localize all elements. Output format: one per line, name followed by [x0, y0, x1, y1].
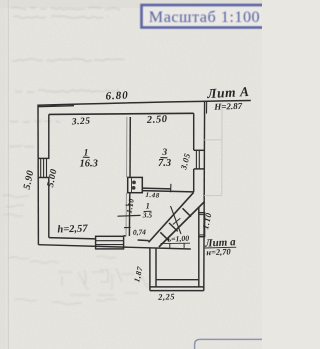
door D1 tie lines — [199, 214, 205, 216]
extension stroke below dim line at Н=2.87 — [206, 101, 208, 114]
svg-text:ь=1,00: ь=1,00 — [167, 234, 189, 244]
diagonal counter slash — [173, 218, 181, 224]
partition wall room1/corridor (dark line) — [129, 117, 131, 177]
window W1 (left wall) ties — [38, 157, 50, 159]
wall: right inner short segment below diagonal — [198, 207, 200, 213]
ghost handwriting bleed-through upper left — [9, 7, 124, 146]
window W2 hatch lines — [96, 240, 124, 242]
diagonal wall: lower line — [159, 202, 204, 247]
diagonal wall: upper line — [149, 192, 194, 242]
svg-text:3: 3 — [161, 148, 167, 158]
window W1 hatch lines — [40, 158, 42, 177]
underline for Лит а — [205, 246, 237, 249]
window W3 hatch lines — [195, 150, 197, 169]
subtle shading top — [0, 0, 262, 8]
svg-text:Масштаб 1:100: Масштаб 1:100 — [149, 8, 260, 26]
wall: outer right (full height incl annex) — [203, 102, 206, 291]
wall: right inner (door D1 to annex bottom) — [198, 237, 200, 287]
svg-text:2.50: 2.50 — [146, 114, 168, 126]
svg-text:0,74: 0,74 — [133, 227, 147, 236]
door D1 (right wall lower) box — [199, 213, 205, 237]
ghost bleed-through marks — [58, 272, 148, 295]
svg-text:1.48: 1.48 — [145, 191, 160, 200]
tick crossing partition (1.10) — [126, 204, 133, 206]
partition wall room1/corridor (light line) — [126, 117, 128, 177]
annex bottom wall outer — [150, 290, 204, 292]
svg-text:1: 1 — [146, 202, 150, 211]
svg-text:3.25: 3.25 — [71, 117, 91, 128]
room3 fraction bar — [160, 157, 167, 159]
annex left wall inner — [155, 248, 157, 287]
svg-text:h=2,57: h=2,57 — [57, 223, 88, 235]
wall: outer top stub at left corner — [38, 105, 74, 108]
wall: room3 inner right (above window) — [193, 113, 195, 150]
corridor fraction bar — [144, 210, 152, 212]
annex bottom wall inner — [150, 286, 204, 288]
wall: room3 inner right (below window) — [193, 169, 195, 192]
underline for b=1.00 — [161, 242, 190, 244]
wall: room1 inner bottom (left of window) — [49, 238, 96, 239]
left margin line — [7, 0, 9, 349]
stamp fragment bottom right — [195, 339, 262, 349]
diagonal tie 1 — [160, 232, 169, 240]
svg-text:Н=2.87: Н=2.87 — [213, 101, 243, 112]
stamp: Масштаб 1:100 — [142, 5, 280, 28]
annex left wall outer — [149, 248, 151, 290]
diagonal slash stroke — [171, 206, 182, 234]
svg-text:н=2,70: н=2,70 — [206, 246, 232, 257]
long dash left of corridor label — [118, 214, 141, 217]
annex step line — [156, 279, 199, 281]
window W2 (bottom wall) box — [96, 236, 124, 249]
wall: room1 inner bottom (window to divider) — [124, 235, 127, 237]
wall: corridor inner bottom (right of door 0.74) — [138, 239, 149, 242]
wall: outer bottom (main, continues as annex north wall line) — [38, 245, 190, 249]
room1 fraction bar — [83, 156, 90, 158]
wall: inner left (below window) — [48, 178, 50, 238]
stove — [128, 177, 143, 192]
wall: outer left — [37, 106, 39, 245]
svg-text:6.80: 6.80 — [105, 89, 129, 102]
wall: inner left (above window) — [48, 114, 50, 158]
wall: room3 south lower line — [142, 191, 193, 192]
dimension line 6.80 (top, doubles as outer top wall and underline of Лит А) — [37, 101, 251, 106]
svg-text:16.3: 16.3 — [80, 158, 98, 169]
tick on room3 south wall (door jamb) — [170, 184, 172, 193]
tick crossing partition (0.74) — [124, 226, 131, 228]
ghost marks lower left — [3, 195, 122, 304]
svg-text:2,25: 2,25 — [157, 291, 175, 302]
svg-text:7.3: 7.3 — [158, 158, 171, 169]
window W3 (right wall room3) ties — [194, 149, 204, 151]
diagonal tie 3 — [183, 208, 192, 216]
door ticks for b=1.00 — [169, 243, 171, 248]
wall: inner top — [49, 113, 194, 114]
svg-text:Лит А: Лит А — [206, 84, 250, 101]
wall: room3 south upper line — [142, 187, 170, 190]
diagonal tie 2 — [169, 223, 178, 232]
svg-text:3.5: 3.5 — [142, 211, 153, 220]
faint pencil rectangle right of wall — [204, 104, 222, 196]
